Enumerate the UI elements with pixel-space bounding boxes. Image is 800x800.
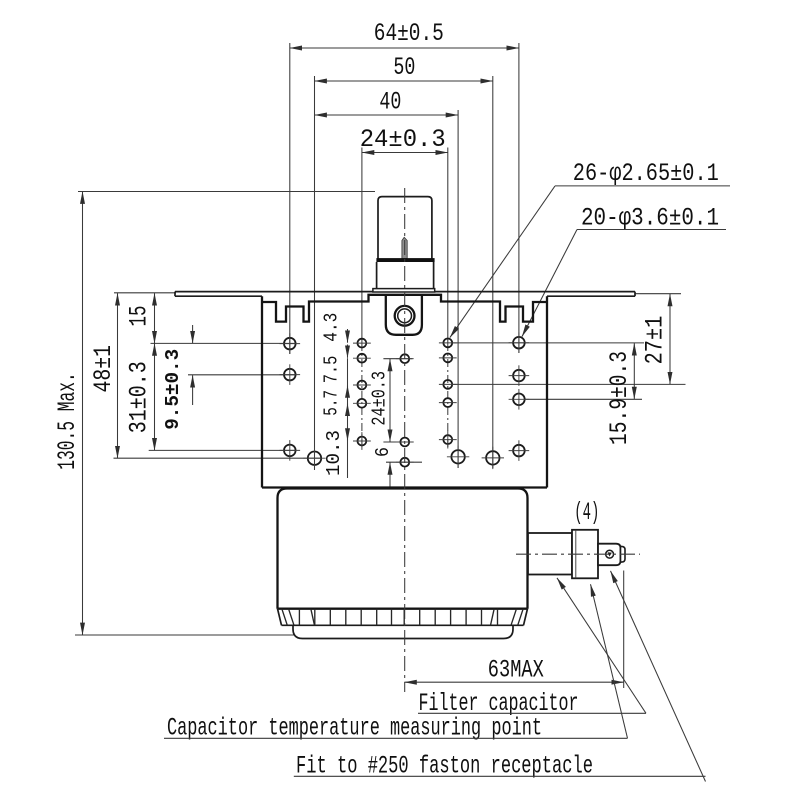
extension line column 24-left bbox=[361, 148, 363, 451]
svg-text:20-φ3.6±0.1: 20-φ3.6±0.1 bbox=[581, 204, 719, 233]
cap joint dark band bbox=[376, 258, 434, 262]
hole row line left r2 bbox=[188, 374, 297, 376]
svg-text:40: 40 bbox=[379, 88, 401, 117]
leader arrow filter capacitor bbox=[557, 578, 646, 713]
svg-text:10.3: 10.3 bbox=[323, 430, 345, 476]
filter capacitor ring bbox=[572, 530, 598, 579]
label 26-φ2.65±0.1 with leader bbox=[450, 159, 730, 338]
bottom plate bbox=[293, 625, 513, 638]
dimension 9.5±0.3 bold bbox=[162, 325, 193, 430]
svg-text:(4): (4) bbox=[574, 498, 599, 527]
filter capacitor cylinder bbox=[528, 533, 572, 575]
label 20-φ3.6±0.1 with leader bbox=[522, 204, 726, 337]
antenna base washer bbox=[373, 289, 435, 292]
hole row line right r3 for 27 dim bbox=[452, 383, 685, 385]
svg-text:48±1: 48±1 bbox=[89, 345, 118, 393]
hole row tick center r2 bbox=[383, 358, 412, 360]
dimension 130.5 Max. bbox=[53, 192, 83, 636]
text Capacitor temperature measuring point bbox=[164, 713, 628, 742]
dimension 24±0.3 vertical center bbox=[369, 359, 391, 442]
dimension 64±0.5 bbox=[290, 19, 519, 48]
svg-text:4.3: 4.3 bbox=[321, 313, 343, 342]
svg-text:27±1: 27±1 bbox=[641, 316, 670, 365]
extension line right flange top bbox=[635, 293, 681, 295]
svg-text:50: 50 bbox=[393, 53, 415, 82]
dimension 27±1 bbox=[641, 294, 671, 384]
dimension 15 bbox=[125, 293, 155, 343]
dimension 6 bbox=[372, 447, 394, 487]
dimension chain 4.3 7.5 5.7 10.3 bbox=[321, 313, 348, 478]
hole row line left big hole bbox=[114, 457, 323, 459]
svg-text:24±0.3: 24±0.3 bbox=[360, 125, 446, 154]
svg-text:130.5 Max.: 130.5 Max. bbox=[53, 372, 82, 470]
terminal hole bbox=[606, 550, 614, 558]
cooling fin band bbox=[278, 609, 528, 626]
extension line column 50-left 40-left bbox=[314, 76, 316, 470]
capacitor centerline bbox=[516, 553, 640, 555]
antenna pin bbox=[402, 237, 407, 258]
extension line top for 130.5 dim bbox=[78, 191, 375, 193]
svg-text:63MAX: 63MAX bbox=[488, 655, 544, 684]
extension line column 40-right bbox=[457, 110, 459, 468]
svg-text:31±0.3: 31±0.3 bbox=[125, 361, 154, 433]
holes φ3.6 bottom row bbox=[308, 450, 500, 465]
dimension 50 bbox=[315, 53, 493, 82]
hole row line right r1 bbox=[452, 342, 644, 344]
faston terminal stub bbox=[598, 544, 625, 566]
extension line 63MAX right bbox=[623, 571, 625, 689]
dimension 63MAX bbox=[404, 655, 623, 684]
svg-text:9.5±0.3: 9.5±0.3 bbox=[162, 349, 184, 430]
antenna cap bbox=[378, 197, 432, 259]
svg-text:64±0.5: 64±0.5 bbox=[374, 19, 444, 48]
text Filter capacitor bbox=[418, 689, 646, 718]
extension line column 64-right bbox=[518, 43, 520, 353]
antenna base cylinder bbox=[377, 262, 434, 289]
body outline upper block bbox=[262, 295, 547, 488]
hole row line left r1 bbox=[151, 342, 297, 344]
center boss bbox=[386, 295, 422, 335]
dimension 40 bbox=[315, 88, 459, 117]
svg-text:7.5: 7.5 bbox=[321, 356, 343, 384]
svg-text:15.9±0.3: 15.9±0.3 bbox=[605, 351, 634, 445]
svg-text:6: 6 bbox=[372, 447, 394, 457]
hole cross ticks bbox=[280, 332, 530, 469]
hole row line left r3 bbox=[149, 449, 297, 451]
hole row line right 15.9 bottom bbox=[525, 398, 643, 400]
text Fit to #250 faston receptacle bbox=[294, 751, 706, 780]
dimension 31±0.3 bbox=[125, 343, 155, 450]
hole row tick center r6 bbox=[386, 461, 422, 463]
holes φ2.65 left cluster column bbox=[358, 339, 367, 446]
extension line left flange top bbox=[114, 292, 176, 294]
extension line column 24-right bbox=[447, 148, 449, 450]
extension line column 50-right bbox=[492, 76, 494, 468]
dimension 24±0.3 top bbox=[360, 125, 448, 154]
extension line column 64-left bbox=[289, 43, 291, 354]
dimension 48±1 bbox=[89, 293, 118, 458]
holes φ3.6 left column bbox=[284, 338, 296, 456]
leader arrow capacitor temperature measuring point bbox=[591, 584, 628, 738]
svg-text:26-φ2.65±0.1: 26-φ2.65±0.1 bbox=[573, 159, 719, 188]
leader arrow faston receptacle bbox=[611, 571, 706, 782]
label (4) bbox=[574, 498, 599, 527]
svg-text:15: 15 bbox=[125, 306, 154, 327]
hole row tick center r5 bbox=[383, 441, 412, 443]
holes φ2.65 center column bbox=[400, 354, 409, 466]
flange plate bbox=[175, 292, 635, 297]
main centerline bbox=[404, 188, 406, 692]
holes φ3.6 right column bbox=[513, 337, 525, 457]
dimension 15.9±0.3 bbox=[605, 343, 634, 445]
lower yoke block bbox=[278, 489, 528, 609]
svg-text:5.7: 5.7 bbox=[321, 390, 343, 416]
extension line bottom for 130.5 dim bbox=[75, 634, 295, 636]
holes φ2.65 right cluster column bbox=[443, 339, 452, 445]
svg-text:24±0.3: 24±0.3 bbox=[369, 371, 391, 426]
